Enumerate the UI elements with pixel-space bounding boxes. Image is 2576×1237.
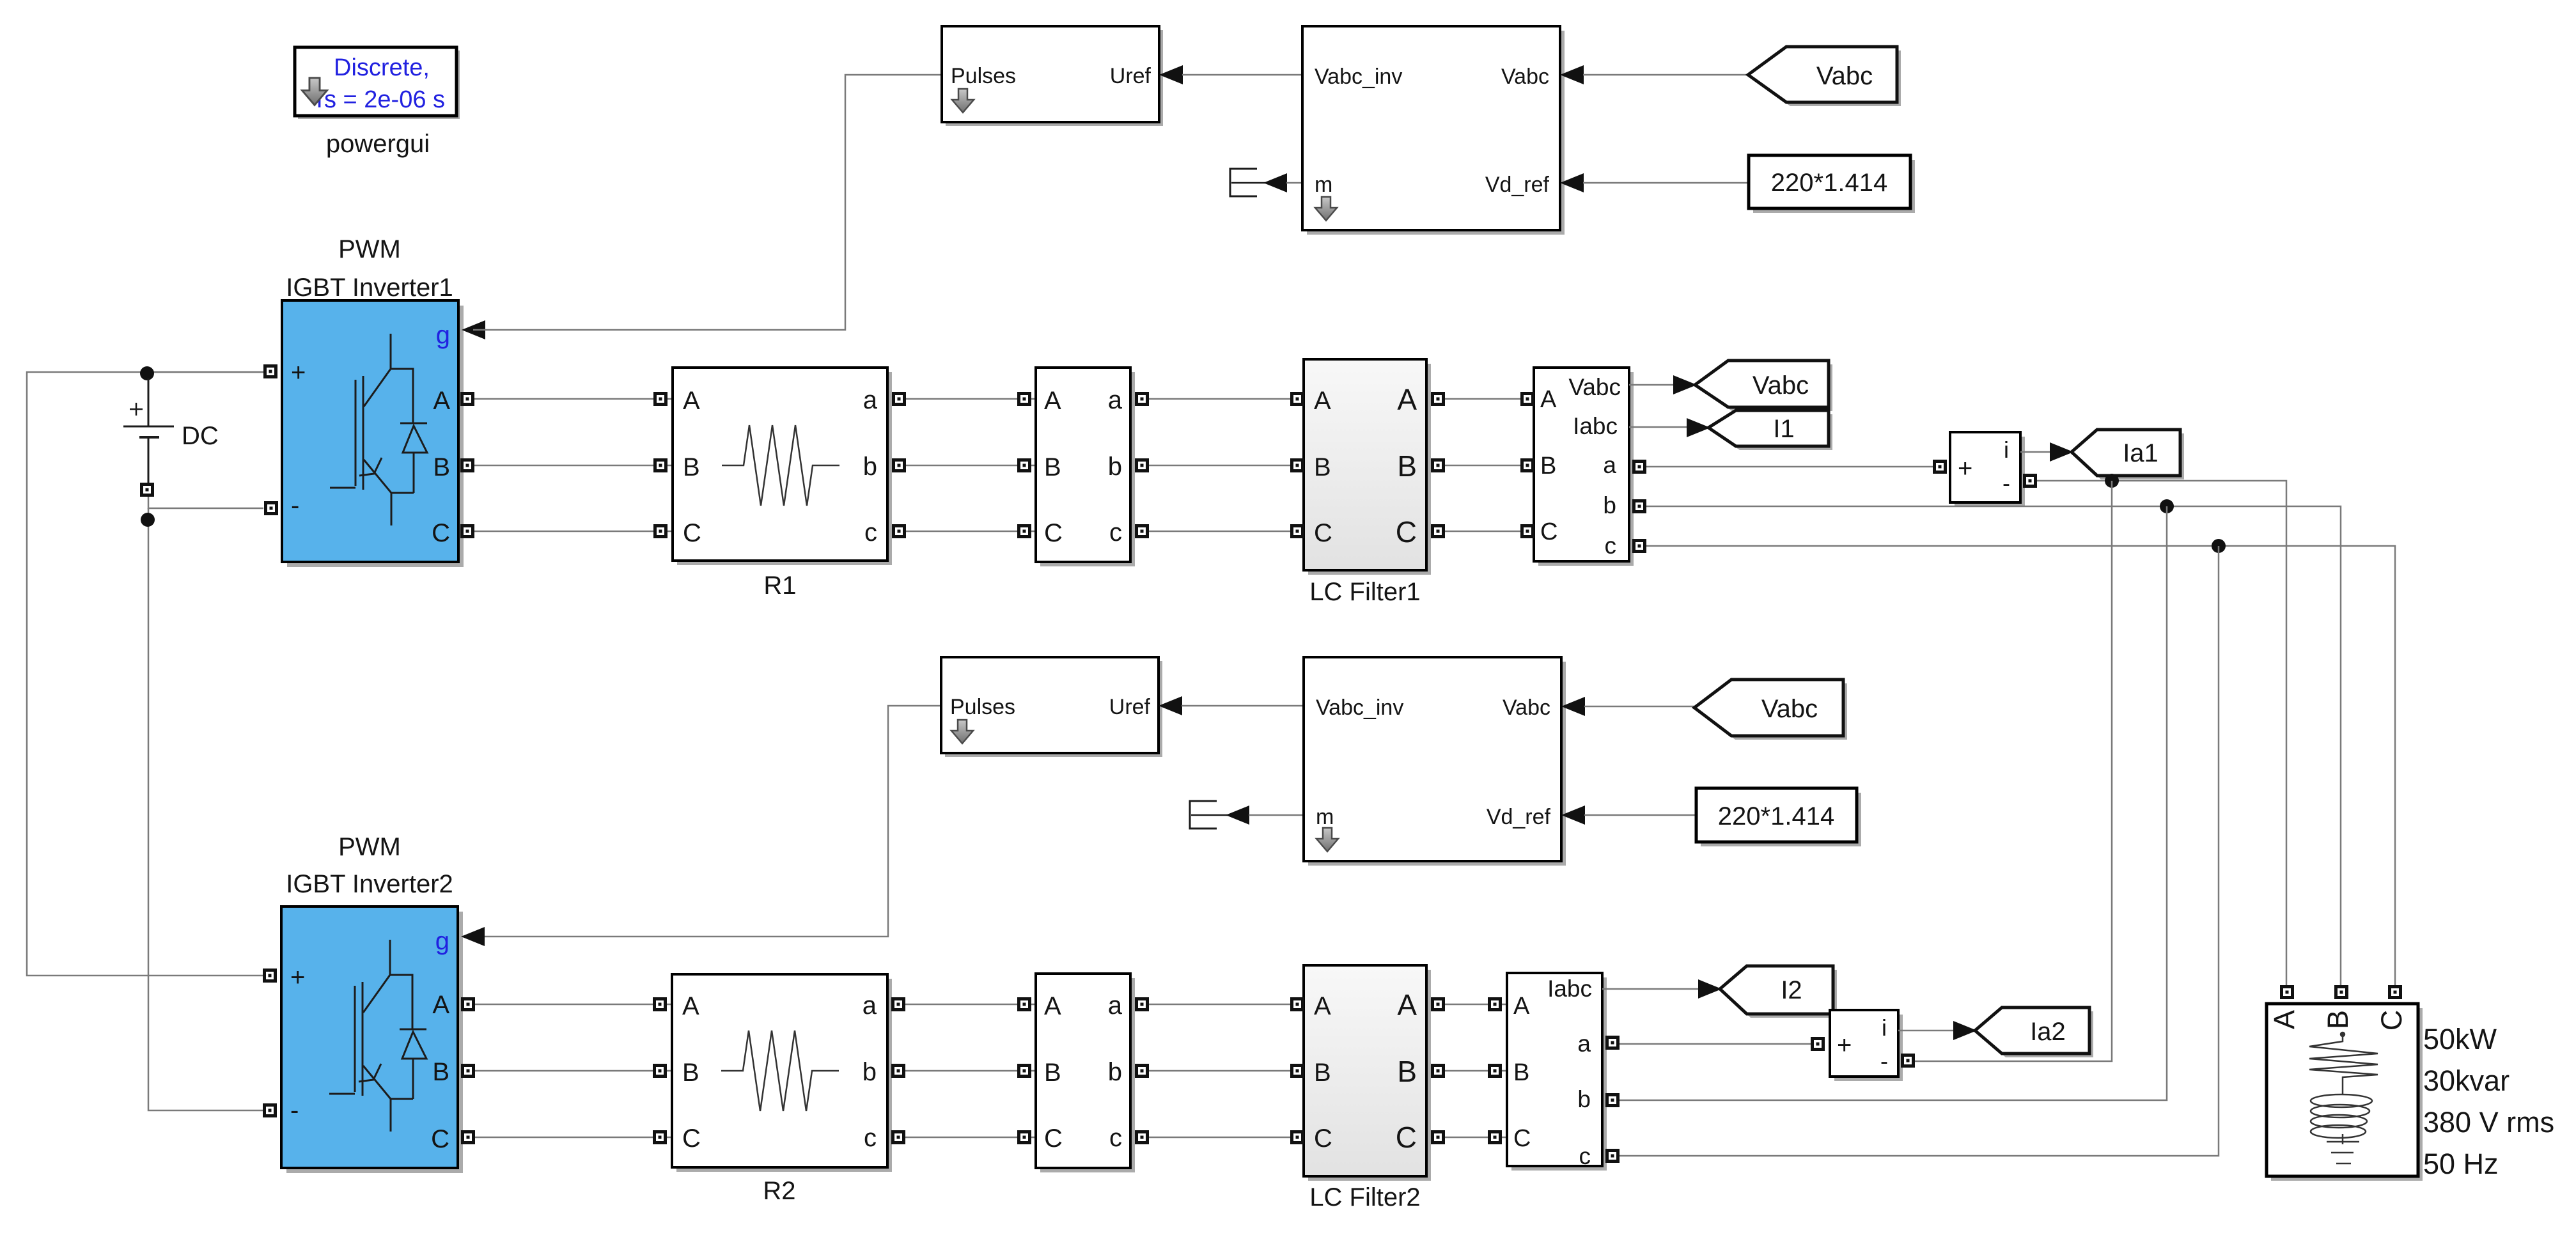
svg-text:Vabc_inv: Vabc_inv: [1316, 696, 1403, 720]
svg-text:220*1.414: 220*1.414: [1771, 169, 1887, 197]
constant C1 220*1.414: [1749, 155, 1915, 213]
block breaker2 three-phase: [1036, 974, 1135, 1172]
wire R1 a to breaker1 A: [906, 398, 1036, 400]
terminator2 input arrow: [1226, 805, 1249, 825]
goto tag Vabc: [1695, 361, 1832, 411]
battery DC source: [123, 378, 174, 483]
svg-text:R2: R2: [763, 1177, 795, 1205]
svg-text:B: B: [1044, 453, 1061, 481]
node junction top of battery: [140, 366, 154, 380]
wire breaker1 b to LC Filter1 B: [1149, 465, 1304, 467]
svg-text:B: B: [683, 453, 700, 481]
block LC Filter1: [1304, 359, 1431, 575]
powergui icon arrow: [302, 78, 327, 105]
svg-text:c: c: [864, 1124, 877, 1152]
svg-text:A: A: [2268, 1010, 2300, 1029]
svg-text:PWM: PWM: [338, 833, 401, 861]
svg-text:a: a: [863, 992, 877, 1020]
powergui block: [295, 47, 460, 119]
wire R2 a to breaker2 A: [905, 1004, 1036, 1006]
From tag Vabc1: [1748, 47, 1901, 106]
svg-text:Vabc_inv: Vabc_inv: [1315, 65, 1402, 89]
wire phase a CM1 minus to load column: [2037, 481, 2286, 985]
svg-text:c: c: [1109, 1124, 1122, 1152]
svg-text:50 Hz: 50 Hz: [2423, 1148, 2499, 1180]
svg-text:powergui: powergui: [326, 130, 430, 158]
block Pulses2 subsystem: [941, 657, 1162, 757]
wire breaker1 a to LC Filter1 A: [1149, 398, 1304, 400]
wire breaker1 c to LC Filter1 C: [1149, 531, 1304, 533]
wire VIM1 Vabc to goto Vabc: [1629, 384, 1701, 386]
wire inverter1 A to R1 A: [474, 398, 673, 400]
wire From Vabc1 to controller1: [1583, 74, 1748, 76]
svg-text:B: B: [1044, 1059, 1061, 1087]
wire constant2 to controller2 Vd_ref: [1584, 814, 1696, 816]
svg-text:c: c: [1109, 518, 1122, 547]
svg-text:A: A: [1314, 992, 1331, 1020]
svg-text:C: C: [1396, 1121, 1417, 1154]
wire inverter2 A to R2 A: [475, 1004, 672, 1006]
svg-text:C: C: [1396, 515, 1417, 548]
wire LC Filter1 C to VIM1 C: [1445, 531, 1534, 533]
svg-text:A: A: [1397, 988, 1417, 1022]
wire inverter1 C to R1 C: [474, 531, 673, 533]
svg-text:Ia1: Ia1: [2123, 439, 2158, 467]
inverter2 g input arrow: [461, 927, 485, 946]
controller1 m icon arrow: [1315, 197, 1337, 221]
wire R2 c to breaker2 C: [905, 1137, 1036, 1139]
goto tag Ia1: [2072, 430, 2184, 479]
wire DC to inverter1 plus: [147, 371, 264, 373]
svg-text:a: a: [1577, 1031, 1591, 1057]
wire inverter1 B to R1 B: [474, 465, 673, 467]
svg-text:b: b: [1603, 492, 1616, 518]
wire VIM2 a to CM2 plus: [1620, 1043, 1811, 1045]
wire controller2 m to terminator2: [1249, 814, 1304, 816]
breaker2 ports: [1019, 999, 1030, 1010]
inverter U2 PWM IGBT Inverter2: [281, 906, 463, 1173]
svg-text:b: b: [1108, 453, 1122, 481]
goto tag Ia1 input arrow: [2050, 442, 2073, 462]
wire LC Filter1 A to VIM1 A: [1445, 398, 1534, 400]
svg-text:C: C: [431, 1125, 449, 1153]
wire controller2 Vabc_inv to Pulses2 Uref: [1182, 705, 1304, 707]
svg-text:B: B: [432, 1058, 449, 1086]
wire breaker2 b to LC Filter2 B: [1149, 1070, 1304, 1072]
svg-text:B: B: [433, 453, 450, 481]
LC Filter2 ports: [1292, 999, 1303, 1010]
wire phase c down to row2: [1620, 546, 2219, 1156]
svg-text:C: C: [1540, 518, 1557, 545]
wire phase c VIM1 to load column: [1646, 546, 2395, 985]
svg-text:C: C: [683, 519, 701, 547]
svg-text:i: i: [2004, 437, 2009, 463]
svg-text:Vabc: Vabc: [1503, 696, 1550, 720]
svg-text:B: B: [1513, 1059, 1529, 1086]
svg-text:LC Filter1: LC Filter1: [1309, 578, 1420, 606]
svg-text:I1: I1: [1773, 415, 1794, 443]
CM1 ports: [1935, 462, 1946, 472]
svg-text:a: a: [1108, 992, 1123, 1020]
svg-text:A: A: [433, 387, 450, 415]
VIM1 ports: [1522, 394, 1533, 405]
node junction below battery: [141, 513, 155, 527]
svg-text:C: C: [1044, 1124, 1063, 1153]
current measurement CM1: [1950, 432, 2025, 507]
svg-text:380 V rms: 380 V rms: [2423, 1106, 2554, 1139]
wire phase a down to row2: [1915, 481, 2112, 1061]
svg-text:g: g: [436, 321, 450, 349]
svg-text:I2: I2: [1781, 976, 1802, 1004]
svg-text:IGBT Inverter2: IGBT Inverter2: [286, 870, 453, 898]
Pulses1 icon arrow: [952, 89, 974, 113]
svg-text:a: a: [1603, 452, 1616, 478]
svg-text:C: C: [1044, 519, 1063, 547]
wire inverter2 C to R2 C: [475, 1137, 672, 1139]
svg-text:B: B: [1540, 453, 1556, 479]
wire From Vabc2 to controller2: [1584, 706, 1694, 708]
block Pulses1 subsystem: [942, 26, 1163, 126]
svg-text:A: A: [1540, 386, 1557, 413]
wire R1 c to breaker1 C: [906, 531, 1036, 533]
inverter1 ports: [265, 366, 276, 377]
svg-text:c: c: [1605, 533, 1617, 559]
terminator T1: [1230, 169, 1266, 196]
svg-text:m: m: [1316, 805, 1334, 829]
wire CM2 i to goto Ia2: [1898, 1030, 1979, 1032]
svg-text:-: -: [2002, 470, 2010, 496]
svg-text:Vabc: Vabc: [1568, 374, 1621, 400]
svg-text:b: b: [1108, 1058, 1122, 1086]
svg-text:LC Filter2: LC Filter2: [1309, 1183, 1420, 1211]
From tag Vabc2: [1694, 680, 1847, 740]
wire DC plus rail: [27, 372, 264, 976]
CM2 ports: [1813, 1039, 1823, 1050]
svg-text:Ia2: Ia2: [2030, 1018, 2066, 1046]
svg-text:C: C: [2375, 1010, 2408, 1031]
svg-text:C: C: [1513, 1125, 1531, 1152]
load block three-phase RLC: [2267, 1004, 2423, 1181]
wire controller1 m to terminator1: [1286, 182, 1302, 184]
svg-text:Pulses: Pulses: [951, 64, 1016, 88]
svg-text:220*1.414: 220*1.414: [1718, 802, 1834, 830]
wire R2 b to breaker2 B: [905, 1070, 1036, 1072]
block VIM2 three-phase I measurement: [1507, 973, 1607, 1171]
R1 ports: [655, 394, 666, 405]
svg-text:Vabc: Vabc: [1816, 62, 1873, 90]
svg-text:C: C: [682, 1124, 701, 1153]
wire phase b VIM1 to load column: [1646, 506, 2341, 985]
controller2 m icon arrow: [1316, 828, 1338, 852]
current measurement CM2: [1830, 1010, 1903, 1081]
svg-text:R1: R1: [763, 572, 796, 600]
svg-text:Pulses: Pulses: [950, 695, 1015, 719]
wire LC Filter2 C to VIM2 C: [1445, 1137, 1507, 1139]
svg-text:B: B: [682, 1059, 699, 1087]
block breaker1 three-phase: [1036, 368, 1135, 566]
svg-text:B: B: [1397, 1055, 1417, 1088]
controller2 Vd_ref input arrow: [1561, 805, 1585, 825]
svg-text:-: -: [291, 492, 299, 520]
block LC Filter2: [1304, 965, 1431, 1181]
load ports: [2282, 987, 2293, 998]
svg-text:A: A: [1044, 992, 1061, 1020]
Pulses1 Uref input arrow: [1159, 65, 1183, 84]
svg-text:A: A: [683, 387, 700, 415]
goto tag I1 input arrow: [1687, 418, 1710, 437]
svg-text:-: -: [290, 1096, 299, 1124]
wire pulses2 to inverter2 g: [473, 706, 941, 937]
R2 ports: [655, 999, 666, 1010]
terminator1 input arrow: [1263, 173, 1287, 192]
wire controller1 Vabc_inv to Pulses1 Uref: [1182, 74, 1302, 76]
wire constant1 to controller1 Vd_ref: [1583, 182, 1749, 184]
svg-text:a: a: [1108, 386, 1123, 414]
wire phase b down to row2: [1620, 506, 2167, 1100]
terminator T2: [1190, 801, 1228, 829]
node phase b junction: [2160, 499, 2174, 513]
resistor block R2: [672, 974, 892, 1172]
goto tag Ia2: [1975, 1007, 2093, 1057]
battery negative port: [142, 485, 153, 495]
Pulses2 icon arrow: [951, 720, 973, 743]
svg-text:B: B: [1314, 453, 1331, 481]
controller1 Vd_ref input arrow: [1560, 173, 1584, 192]
svg-text:A: A: [432, 991, 449, 1019]
controller1 Vabc input arrow: [1560, 65, 1584, 84]
wire battery negative to inverter1 minus: [148, 497, 263, 508]
wire DC minus rail down: [148, 508, 264, 1110]
svg-text:c: c: [864, 518, 877, 547]
svg-text:B: B: [2322, 1010, 2354, 1029]
svg-text:A: A: [1397, 383, 1417, 416]
svg-text:m: m: [1315, 173, 1332, 197]
block controller1 voltage regulator: [1302, 26, 1565, 235]
svg-text:30kvar: 30kvar: [2423, 1064, 2510, 1097]
inverter1 g input arrow: [462, 320, 485, 339]
svg-text:C: C: [432, 519, 450, 547]
svg-text:g: g: [435, 927, 449, 955]
svg-text:Vd_ref: Vd_ref: [1485, 173, 1550, 197]
node phase c junction: [2212, 539, 2226, 553]
svg-text:Iabc: Iabc: [1573, 413, 1618, 439]
svg-text:Uref: Uref: [1109, 695, 1151, 719]
wire inverter2 B to R2 B: [475, 1070, 672, 1072]
block VIM1 three-phase VI measurement: [1534, 368, 1634, 566]
wire LC Filter1 B to VIM1 B: [1445, 465, 1534, 467]
svg-text:b: b: [863, 1058, 877, 1086]
svg-text:Uref: Uref: [1110, 64, 1151, 88]
wire breaker2 c to LC Filter2 C: [1149, 1137, 1304, 1139]
svg-text:Iabc: Iabc: [1547, 976, 1592, 1002]
breaker1 ports: [1019, 394, 1030, 405]
constant C2 220*1.414: [1696, 788, 1861, 846]
goto tag Ia2 input arrow: [1953, 1021, 1977, 1040]
svg-text:Vabc: Vabc: [1752, 371, 1809, 400]
svg-text:c: c: [1579, 1143, 1591, 1169]
svg-text:+: +: [290, 963, 305, 992]
wire LC Filter2 B to VIM2 B: [1445, 1070, 1507, 1072]
svg-text:b: b: [1577, 1086, 1591, 1112]
wire CM1 i to goto Ia1: [2020, 451, 2075, 453]
block controller2 voltage regulator: [1304, 657, 1566, 866]
svg-text:B: B: [1397, 449, 1417, 483]
svg-text:C: C: [1314, 1124, 1332, 1153]
inverter2 ports: [265, 970, 276, 981]
svg-text:b: b: [863, 453, 877, 481]
Pulses2 Uref input arrow: [1159, 696, 1182, 715]
wire breaker2 a to LC Filter2 A: [1149, 1004, 1304, 1006]
wire pulses1 to inverter1 g: [473, 75, 942, 330]
svg-text:a: a: [863, 386, 878, 414]
svg-text:A: A: [682, 992, 699, 1020]
wire R1 b to breaker1 B: [906, 465, 1036, 467]
wire VIM1 a to CM1 plus: [1646, 466, 1933, 468]
inverter U1 PWM IGBT Inverter1: [282, 300, 464, 567]
svg-text:Vd_ref: Vd_ref: [1487, 805, 1551, 829]
svg-text:Discrete,: Discrete,: [334, 54, 430, 81]
svg-text:+: +: [1958, 455, 1972, 483]
wire LC Filter2 A to VIM2 A: [1445, 1004, 1507, 1006]
goto tag Vabc input arrow: [1673, 375, 1697, 394]
VIM2 ports: [1490, 999, 1501, 1010]
svg-text:PWM: PWM: [338, 235, 401, 263]
svg-text:B: B: [1314, 1059, 1331, 1087]
wire VIM1 Iabc to goto I1: [1629, 426, 1712, 428]
svg-text:+: +: [1837, 1031, 1852, 1059]
svg-text:C: C: [1314, 519, 1332, 547]
node phase a junction: [2105, 474, 2119, 488]
controller2 Vabc input arrow: [1561, 697, 1585, 716]
wire VIM2 Iabc to goto I2: [1602, 988, 1724, 990]
svg-text:IGBT Inverter1: IGBT Inverter1: [286, 274, 453, 302]
LC Filter1 ports: [1292, 394, 1303, 405]
svg-text:A: A: [1314, 387, 1331, 415]
goto tag I1: [1708, 410, 1832, 450]
svg-text:A: A: [1513, 993, 1530, 1020]
svg-text:Ts = 2e-06 s: Ts = 2e-06 s: [312, 86, 445, 113]
svg-text:Vabc: Vabc: [1761, 695, 1818, 723]
svg-text:-: -: [1880, 1048, 1888, 1074]
svg-text:+: +: [291, 359, 306, 387]
svg-text:A: A: [1044, 387, 1061, 415]
goto tag I2: [1720, 966, 1837, 1018]
goto tag I2 input arrow: [1698, 979, 1722, 999]
svg-text:50kW: 50kW: [2423, 1023, 2497, 1055]
svg-text:Vabc: Vabc: [1501, 65, 1549, 89]
svg-text:i: i: [1882, 1015, 1887, 1041]
svg-text:DC: DC: [182, 422, 219, 450]
resistor block R1: [673, 368, 892, 565]
